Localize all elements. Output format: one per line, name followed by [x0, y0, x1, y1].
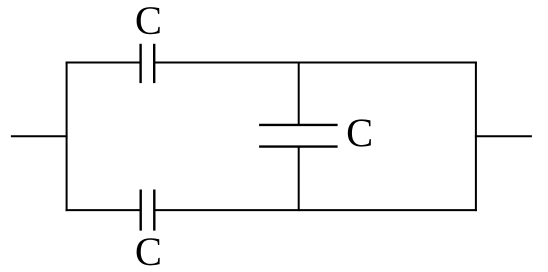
- top wire left segment: [66, 62, 141, 64]
- capacitor C top: right plate: [153, 44, 155, 83]
- capacitor C bottom: right plate: [153, 190, 155, 231]
- bottom wire left segment: [66, 209, 141, 211]
- capacitor C bottom: left plate: [139, 190, 141, 231]
- right lead wire: [475, 135, 532, 137]
- capacitor C middle: bottom plate: [259, 145, 338, 147]
- capacitor C middle: value label: [348, 119, 371, 146]
- left lead wire: [11, 135, 68, 137]
- left vertical wire: [66, 62, 68, 212]
- capacitor C bottom: value label: [137, 238, 160, 265]
- capacitor C top: value label: [137, 7, 160, 34]
- capacitor C top: left plate: [139, 44, 141, 83]
- middle branch wire lower segment: [298, 147, 300, 212]
- bottom wire right segment: [154, 209, 477, 211]
- middle branch wire upper segment: [298, 62, 300, 125]
- capacitor C middle: top plate: [259, 124, 338, 126]
- top wire right segment: [154, 62, 477, 64]
- right vertical wire: [475, 62, 477, 212]
